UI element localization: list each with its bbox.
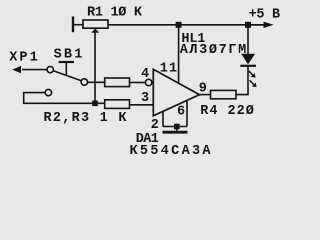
node ground junction xyxy=(174,124,180,130)
diode HL1 xyxy=(241,54,255,64)
switch contact C xyxy=(45,89,51,95)
op-amp inversion bubble pin 4 xyxy=(145,79,151,85)
wire pins 2-6 join xyxy=(163,126,187,128)
svg-text:SB1: SB1 xyxy=(54,47,83,62)
svg-text:АЛ3Ø7ГМ: АЛ3Ø7ГМ xyxy=(180,43,247,58)
R1 left terminal bar xyxy=(72,17,74,33)
switch actuator stem xyxy=(65,63,67,75)
LED cathode bar xyxy=(240,65,256,67)
switch actuator bar xyxy=(59,61,74,63)
wire switch to R2 xyxy=(87,81,104,83)
svg-text:9: 9 xyxy=(199,82,207,97)
wire output pin 9 xyxy=(200,94,211,96)
resistor R3 xyxy=(105,100,130,109)
wire R1 left xyxy=(73,24,83,26)
resistor R2 xyxy=(105,78,130,87)
node +5V junction xyxy=(245,22,251,28)
svg-text:К554СА3А: К554СА3А xyxy=(130,144,212,158)
wire pin 4 xyxy=(130,82,146,84)
wire LED top xyxy=(247,25,249,54)
svg-text:2: 2 xyxy=(151,118,159,133)
svg-text:4: 4 xyxy=(141,67,149,82)
switch SB1 xyxy=(45,62,87,96)
switch contact A xyxy=(47,66,53,72)
HL1 light arrow 2 xyxy=(250,80,257,87)
svg-text:XP1: XP1 xyxy=(9,50,38,65)
svg-text:+5 В: +5 В xyxy=(249,7,281,22)
switch lever xyxy=(53,71,81,81)
wire pin 3 xyxy=(130,104,154,106)
svg-text:6: 6 xyxy=(177,105,185,120)
switch contact B xyxy=(81,79,87,85)
node pin11 junction xyxy=(176,22,182,28)
+5V terminal arrow xyxy=(251,22,274,28)
wire ground stub xyxy=(176,127,178,131)
resistor R4 xyxy=(211,90,237,98)
connector XP1 arrow xyxy=(12,66,21,73)
svg-text:11: 11 xyxy=(160,61,177,76)
svg-text:R2,R3 1 К: R2,R3 1 К xyxy=(44,111,128,126)
svg-text:3: 3 xyxy=(141,91,149,106)
wire throw C to U-shape xyxy=(24,93,105,104)
svg-text:R1 1Ø К: R1 1Ø К xyxy=(87,5,143,20)
ground xyxy=(163,131,188,134)
wire R1 wiper vertical xyxy=(94,32,96,103)
wire pin 2 xyxy=(162,112,164,127)
wire R4 to LED xyxy=(236,67,248,95)
op-amp DA1 triangle xyxy=(153,69,199,116)
HL1 light arrow 1 xyxy=(249,71,256,78)
svg-text:R4 22Ø: R4 22Ø xyxy=(200,104,254,119)
wire pin 6 xyxy=(186,101,188,127)
wire top rail xyxy=(108,24,266,26)
wire XP1 tail xyxy=(22,69,47,71)
wire pin 11 xyxy=(178,25,180,83)
resistor R1 xyxy=(83,20,108,28)
node R3 junction xyxy=(92,101,98,107)
R1 wiper arrow xyxy=(91,28,99,32)
